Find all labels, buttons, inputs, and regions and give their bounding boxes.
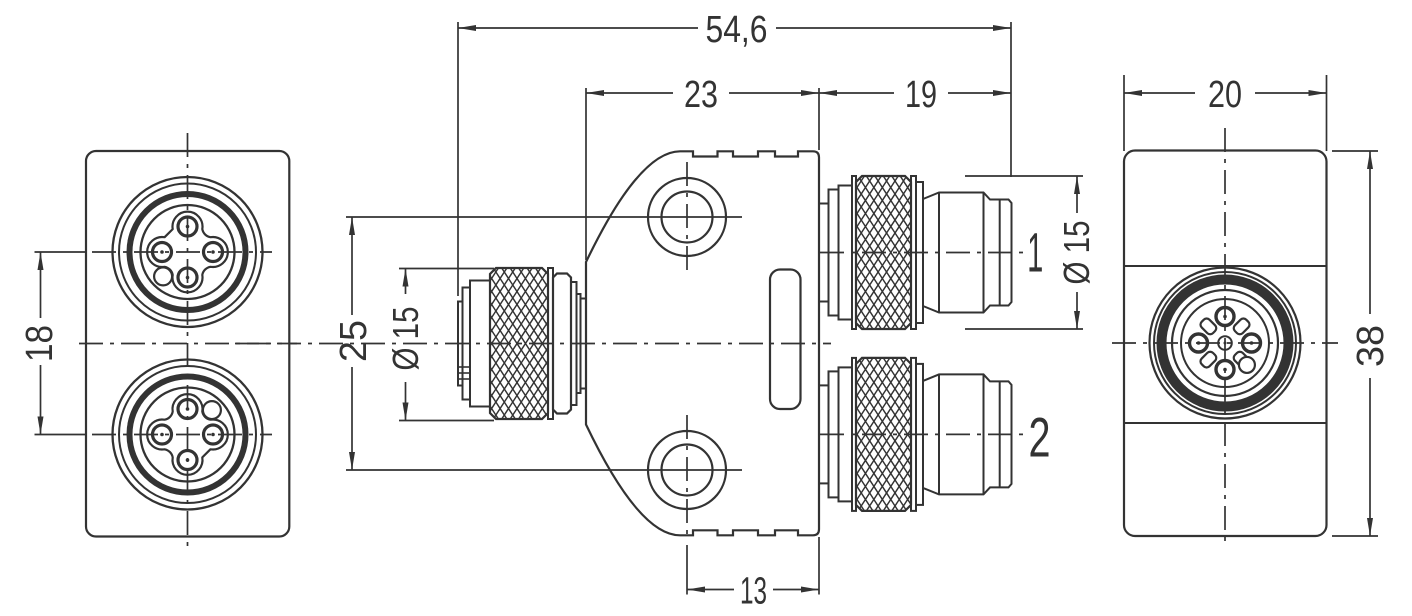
male ring: [916, 182, 923, 323]
dimension 54,6 line: [458, 27, 698, 29]
dimension 19 line: [819, 92, 894, 94]
socket pin: [153, 243, 172, 262]
male connector 1 centerline: [820, 252, 1026, 254]
svg-text:38: 38: [1350, 325, 1392, 367]
keyway circle: [154, 267, 172, 285]
female connector nose cylinder: [470, 281, 490, 407]
bottom hole vertical centerline: [686, 415, 688, 535]
male connector 2 centerline: [820, 433, 1023, 435]
male tip groove line: [999, 200, 1001, 306]
male face seal ring (black): [1162, 280, 1289, 407]
dimension 25 line: [351, 217, 353, 315]
insert face circle: [141, 205, 235, 299]
svg-text:19: 19: [905, 74, 937, 116]
dimension 18 line: [40, 252, 42, 318]
male tip groove line: [999, 381, 1001, 487]
dimension 38 line: [1369, 151, 1371, 314]
dimension 20 line: [1124, 92, 1195, 94]
second bezel circle: [119, 366, 256, 503]
top mounting hole inner: [662, 192, 713, 243]
male thread end line: [983, 193, 985, 313]
svg-text:13: 13: [740, 571, 767, 613]
svg-text:Ø 15: Ø 15: [1056, 221, 1097, 285]
male face center pin: [1218, 336, 1232, 350]
female connector rear step 1: [571, 282, 577, 405]
dimension dia15 right line: [1076, 176, 1078, 213]
male face keyway slot: [1230, 348, 1258, 376]
socket pin: [204, 425, 223, 444]
socket pin: [153, 425, 172, 444]
svg-text:20: 20: [1208, 74, 1242, 116]
male face recess circle: [1172, 290, 1278, 396]
male thread end line: [983, 374, 985, 494]
outer bezel circle: [113, 177, 263, 327]
dimension dia15 left line: [405, 269, 407, 295]
female connector rear ring: [553, 274, 571, 414]
seal ring (thick): [130, 194, 246, 310]
left view bottom connector face: [113, 360, 263, 510]
left view vertical centerline: [187, 133, 189, 553]
seal ring (thick): [130, 377, 246, 493]
male thread barrel: [923, 193, 1012, 313]
dimension dia15 right extension top: [965, 175, 1083, 177]
male face insert circle: [1181, 299, 1269, 387]
svg-text:25: 25: [333, 320, 375, 362]
male thread start line: [938, 193, 940, 313]
female connector rear step 2: [577, 294, 581, 393]
top mounting hole outer: [648, 178, 726, 256]
right view horizontal centerline: [1112, 342, 1338, 344]
right view lower chamfer line: [1124, 422, 1327, 424]
male knurl border right: [911, 176, 916, 329]
dimension 13 extension line right: [818, 537, 820, 595]
middle main horizontal centerline: [235, 343, 831, 345]
svg-text:18: 18: [19, 325, 61, 362]
male thread barrel: [923, 374, 1012, 494]
socket pin: [178, 268, 197, 287]
socket pin: [178, 400, 197, 419]
female connector rear step 3: [581, 299, 587, 389]
male step B: [829, 190, 839, 316]
left view top connector horizontal centerline: [92, 251, 272, 253]
insert keying contour: [147, 394, 228, 475]
dimension dia15 left extension top: [399, 268, 494, 270]
male step A: [819, 204, 829, 302]
distributor body outline: [586, 151, 819, 535]
dimension 23/19 shared extension line: [818, 88, 820, 150]
dimension 23 extension line left: [585, 88, 587, 260]
dimension 25 extension line top: [346, 216, 742, 218]
male face pins: [1216, 308, 1234, 326]
male ring: [916, 364, 923, 505]
female connector nose step: [463, 288, 471, 400]
dimension 25 extension line bottom: [346, 469, 742, 471]
dimension 20 extension lines: [1123, 75, 1125, 151]
center slot: [770, 270, 801, 410]
male knurl border left: [852, 358, 856, 511]
insert face circle: [141, 388, 235, 482]
female connector knurl border ring: [548, 268, 553, 419]
socket pin: [204, 243, 223, 262]
dimension 23 line: [586, 92, 673, 94]
male face second circle: [1154, 272, 1296, 414]
dimension dia15 left extension bottom: [399, 420, 494, 422]
left view mid horizontal centerline: [79, 343, 297, 345]
male step A: [819, 385, 829, 483]
outer bezel circle: [113, 360, 263, 510]
male face outer circle: [1150, 268, 1301, 419]
svg-text:23: 23: [684, 74, 718, 116]
male knurl border left: [852, 176, 856, 329]
top hole vertical centerline: [686, 162, 688, 272]
second bezel circle: [119, 184, 256, 321]
male step C: [839, 186, 853, 320]
female connector coding lines: [457, 366, 470, 368]
right view flange outline: [1124, 151, 1327, 537]
male thread start line: [938, 374, 940, 494]
dimension 18 extension lines: [35, 251, 87, 253]
right view upper chamfer line: [1124, 265, 1327, 267]
male face slots: [1232, 317, 1251, 336]
socket pin: [178, 451, 197, 470]
dimension 13 line: [687, 589, 734, 591]
left view bottom connector horizontal centerline: [92, 434, 272, 436]
female connector nose face: [458, 302, 463, 386]
insert keying contour: [147, 212, 228, 293]
svg-text:Ø 15: Ø 15: [385, 307, 426, 371]
svg-text:2: 2: [1029, 406, 1051, 469]
svg-text:54,6: 54,6: [706, 9, 768, 51]
keyway circle: [203, 401, 221, 419]
left view flange outline: [86, 151, 289, 537]
socket pin: [178, 217, 197, 236]
dimension 38 extension lines: [1332, 150, 1378, 152]
dimension 54,6 extension line left: [457, 22, 459, 296]
bottom mounting hole outer: [648, 431, 726, 509]
right view vertical centerline: [1224, 128, 1226, 548]
bottom mounting hole inner: [662, 445, 713, 496]
male step C: [839, 367, 853, 501]
dimension 54,6 extension line right: [1010, 22, 1012, 177]
svg-text:1: 1: [1027, 221, 1043, 284]
dimension dia15 right extension bottom: [965, 328, 1083, 330]
male knurl border right: [911, 358, 916, 511]
dimension 13 extension line left: [686, 545, 688, 595]
male step B: [829, 371, 839, 497]
left view top connector face: [113, 177, 263, 327]
